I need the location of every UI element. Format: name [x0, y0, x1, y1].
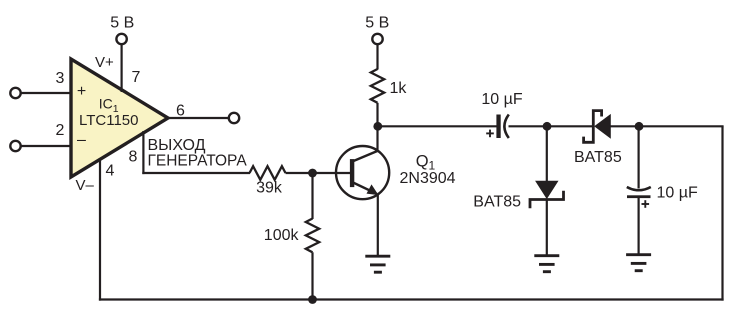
ground symbol: D2: [534, 256, 559, 272]
node: output junction dot: [635, 122, 644, 131]
wire: 5V to 1k: [376, 44, 378, 70]
svg-text:1k: 1k: [390, 80, 408, 97]
svg-text:+: +: [77, 83, 86, 100]
resistor R1 39k: [250, 166, 286, 180]
svg-text:6: 6: [176, 103, 185, 120]
node: bottom rail junction dot: [308, 295, 317, 304]
svg-text:V–: V–: [76, 177, 95, 194]
wire: pin 8 horizontal to 39k: [142, 172, 250, 174]
terminal circle: - input: [10, 141, 20, 151]
transistor Q1 collector slant: [354, 151, 379, 162]
terminal circle: output: [229, 113, 239, 123]
resistor R2 100k: [306, 219, 319, 253]
svg-text:BAT85: BAT85: [473, 194, 521, 211]
capacitor C1 10uF positive plate: [496, 115, 500, 139]
svg-text:V+: V+: [95, 54, 114, 71]
resistor R3 1k: [371, 69, 384, 103]
wire: D2 to ground: [546, 200, 548, 256]
wire: 100k to bottom rail: [311, 252, 313, 299]
node: base junction dot: [308, 169, 317, 178]
transistor Q1 emitter arrowhead: [367, 184, 379, 195]
diode D2 schottky cathode bar: [530, 191, 564, 209]
svg-text:10 µF: 10 µF: [657, 185, 698, 202]
wire: noninverting input lead: [20, 92, 71, 94]
wire: op-amp output pin 6: [166, 117, 228, 119]
diode D1 schottky cathode bar: [584, 111, 602, 143]
svg-text:5 В: 5 В: [110, 15, 134, 32]
wire: node to 100k: [311, 173, 313, 219]
terminal circle: + input: [10, 88, 20, 98]
svg-text:7: 7: [132, 69, 141, 86]
op-amp U1 LTC1150 triangle: [71, 59, 168, 177]
wire: junction down to D2: [546, 126, 548, 182]
wire: 1k to collector node: [376, 103, 378, 151]
wire: bottom feedback rail: [99, 298, 724, 300]
ground symbol: emitter: [365, 256, 390, 272]
diode D1 BAT85 series triangle: [595, 115, 610, 138]
ground symbol: C2: [626, 255, 651, 271]
svg-text:2: 2: [56, 122, 65, 139]
capacitor C2 curved plate: [627, 187, 651, 190]
svg-text:10 µF: 10 µF: [481, 91, 522, 108]
svg-text:LTC1150: LTC1150: [79, 112, 138, 129]
svg-text:BAT85: BAT85: [574, 149, 622, 166]
node: D2 junction dot: [543, 122, 552, 131]
svg-text:2N3904: 2N3904: [400, 170, 456, 187]
svg-text:5 В: 5 В: [365, 15, 389, 32]
wire: emitter down to ground: [377, 195, 379, 257]
svg-text:3: 3: [56, 70, 65, 87]
svg-text:–: –: [77, 132, 86, 149]
capacitor C2 plus sign: [642, 200, 650, 208]
capacitor C2 positive plate: [627, 195, 651, 198]
terminal circle: 5V right: [372, 34, 382, 44]
svg-text:39k: 39k: [256, 180, 283, 197]
svg-text:4: 4: [106, 163, 115, 180]
wire: 39k to base node: [286, 172, 351, 174]
wire: pin 8 vertical lead: [142, 131, 144, 174]
svg-text:8: 8: [129, 149, 138, 166]
wire: inverting input lead: [20, 145, 71, 147]
capacitor C1 curved plate: [504, 115, 508, 139]
svg-text:ГЕНЕРАТОРА: ГЕНЕРАТОРА: [148, 152, 248, 169]
transistor Q1 circle: [336, 146, 389, 199]
wire: collector node to C1: [378, 125, 497, 127]
node: collector junction dot: [373, 122, 382, 131]
terminal circle: V+ supply: [116, 34, 126, 44]
wire: V- pin 4 lead down: [99, 158, 101, 301]
wire: C2 to ground: [637, 197, 639, 254]
wire: C1 to diode D1: [509, 125, 595, 127]
wire: V+ pin 7 lead: [120, 44, 122, 92]
transistor Q1 emitter slant: [353, 183, 377, 194]
svg-text:100k: 100k: [264, 227, 300, 244]
wire: right feedback rail: [721, 126, 723, 300]
transistor Q1 base bar: [350, 159, 354, 187]
diode D2 BAT85 triangle: [536, 181, 558, 198]
wire: D1 to output node: [610, 125, 723, 127]
wire: output node to C2: [637, 126, 639, 188]
capacitor C1 plus sign: [486, 130, 494, 138]
